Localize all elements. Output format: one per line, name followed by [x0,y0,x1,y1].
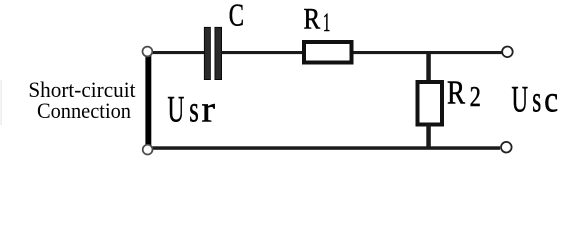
label Usr [168,90,216,131]
label R1 [304,2,331,37]
svg-text:s: s [189,90,199,131]
terminal: output top (open circle) [502,47,513,58]
resistor R1 [304,42,352,63]
wire: node junction down to R2 [426,53,431,82]
svg-text:R: R [304,2,321,35]
svg-text:R: R [447,74,465,111]
node: input bottom junction (open circle) [143,145,153,155]
svg-text:Connection: Connection [37,98,131,123]
faint left-edge artifact line [1,80,2,125]
svg-text:U: U [168,90,185,131]
wire: R1 to output terminal [353,51,502,54]
wire: capacitor to R1 [222,51,304,54]
svg-text:2: 2 [470,82,481,113]
resistor R2 [418,82,443,125]
label: Short-circuit Connection [28,77,136,123]
svg-text:s: s [532,79,541,120]
svg-text:c: c [544,79,558,120]
capacitor C [204,27,221,79]
label Usc [512,79,559,120]
wire: top segment from input terminal to capacitor [150,51,205,54]
svg-text:r: r [202,90,216,131]
svg-text:1: 1 [323,8,330,37]
terminal: input top (open circle) [143,47,153,57]
svg-text:U: U [512,79,529,120]
terminal: output bottom (open circle) [501,142,512,153]
short-circuit wire (thick vertical) [145,55,151,146]
label R2 [447,74,481,113]
svg-text:C: C [229,0,244,32]
wire: R2 down to bottom rail [426,125,431,148]
wire: bottom rail [150,146,500,150]
